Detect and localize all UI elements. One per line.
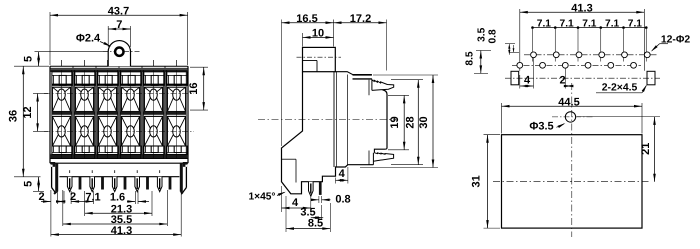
drill pattern: top row holes 12-dia2 [531,52,537,58]
cell 3: inter-row divider band [97,112,117,115]
dim 16.5 [281,20,283,147]
front view: flange tick marks at column boundaries [72,66,74,68]
svg-text:31: 31 [471,175,483,187]
dim 19 socket opening [388,94,409,96]
cell 4: inter-row divider band [120,112,140,115]
svg-text:43.7: 43.7 [108,5,129,17]
cell 3: row2 screw cavity [98,116,116,146]
cell 3: lower clamp window [98,146,118,154]
side view: body outline [282,72,374,194]
front view pin (lancet) 1 [69,170,71,173]
cell 5: row2 screw cavity [144,116,162,146]
cell 1: row1 screw ellipse [58,89,66,100]
dim 3.5 (offset) [505,43,515,45]
side view: upper latch inner line [368,80,370,96]
svg-text:8.5: 8.5 [308,217,323,229]
front view: pin shoulder line [59,176,179,178]
svg-text:2: 2 [38,191,44,203]
svg-text:7.1: 7.1 [560,19,574,30]
front view pins: left hook bar [55,163,58,192]
dim 17.2 [386,20,388,71]
cell 4: row2 screw ellipse [127,126,135,137]
front view: top dark band [51,69,188,72]
front view pin (lancet) 5 [159,170,161,173]
svg-text:2: 2 [559,75,565,87]
cell 6: upper clamp window [167,72,187,86]
cell 4: upper clamp window [121,72,141,86]
svg-text:5: 5 [23,56,35,62]
svg-text:41.3: 41.3 [111,225,132,237]
front view pins: left hook head [51,162,56,167]
svg-text:1.6: 1.6 [110,192,125,204]
cell 3: row1 screw ellipse [104,89,112,100]
dim 4 (edge to first hole) [519,75,521,89]
cell 5: lower clamp window [144,146,164,154]
cell 2: inter-row divider band [74,112,94,115]
svg-text:16.5: 16.5 [296,13,317,25]
dim 0.8 (offset) [509,51,519,53]
cell 4: row2 screw cavity [121,116,139,146]
side view: upper latch with teeth [372,79,394,91]
cell 6: row1 screw cavity [167,87,185,111]
dim 5 ear center to flange top [35,51,109,53]
cell 4: vertical centerline [130,60,132,66]
svg-text:0.8: 0.8 [335,193,350,205]
cell 1: row1 screw cavity [52,87,70,111]
dim 35.5 [63,223,168,225]
svg-text:7.1: 7.1 [605,19,619,30]
drill pattern: left slot 2x4.5 [511,71,519,85]
side view: ear block [303,47,336,71]
drill pattern: right slot 2x4.5 [647,71,655,85]
cell 4: row1 screw ellipse [127,89,135,100]
dim 43.7 overall width [49,12,51,65]
cell 6: inter-row divider band [166,112,186,115]
svg-text:12: 12 [22,106,34,118]
svg-text:7: 7 [116,19,122,31]
side view: body centerline (dash-dot) [258,119,398,121]
cell 5: vertical centerline [153,60,155,66]
bottom dims: extension lines [50,190,52,237]
svg-text:Φ3.5: Φ3.5 [529,120,553,132]
side view: right edge lower corner [374,148,387,153]
dim 2 hook width [41,201,51,203]
dim 36 body height [14,65,49,67]
svg-text:8.5: 8.5 [465,51,476,65]
svg-text:30: 30 [418,116,430,128]
cell 4: row1 screw cavity [121,87,139,111]
svg-text:0.8: 0.8 [488,29,499,43]
side view pin (lancet) [309,182,314,197]
dim 12 row pitch [33,93,48,95]
drill pattern: dim 41.3 [519,9,521,71]
dim 0.8 pin thickness [318,196,320,203]
cutout hole centerline (dash-dot) [552,116,593,118]
front view pin (lancet) 3 [114,170,116,173]
side view: ear centerline (dash-dot) [297,56,342,58]
cell 6: lower clamp window [167,146,187,154]
svg-text:Φ2.4: Φ2.4 [76,33,101,45]
side view pin (flat) [319,182,322,195]
svg-text:7.1: 7.1 [582,19,596,30]
cell 5: inter-row divider band [143,112,163,115]
svg-text:28: 28 [405,116,417,128]
cell 1: vertical centerline [61,60,63,66]
side view: upper latch fillet to right edge [383,90,388,148]
svg-text:4: 4 [524,75,531,87]
side view: lower latch with teeth [373,153,393,165]
cell 5: row1 screw cavity [144,87,162,111]
mounting ear tab [108,41,130,67]
dim 31 [484,134,501,136]
cell 6: row2 screw cavity [167,116,185,146]
dim 16 right side [190,66,208,68]
front view pin (flat) 3 [124,177,127,190]
front view: column divider walls [71,70,73,159]
dim 21.3 [85,212,152,214]
cell 1: row2 screw ellipse [58,126,66,137]
side view: lower latch inner line [368,151,370,165]
slot centerline (dash-dot) [505,77,660,79]
cutout: dim 44.5 [501,103,503,134]
svg-text:19: 19 [389,116,401,128]
svg-text:2-2×4.5: 2-2×4.5 [602,83,638,94]
cell 2: row2 screw ellipse [81,126,89,137]
cell 6: row2 screw ellipse [173,126,181,137]
dim 4 left (foot to pin) [281,186,283,212]
cell 1: upper clamp window [52,72,72,86]
svg-text:16: 16 [188,82,200,94]
cell 2: row1 screw ellipse [81,89,89,100]
dim 8.5 [285,196,287,232]
cell 3: vertical centerline [107,60,109,66]
cell 2: upper clamp window [75,72,95,86]
front view pin (flat) 4 [146,177,149,190]
cell 4: lower clamp window [121,146,141,154]
drill pattern: bottom row centerline (dash-dot) [512,64,641,66]
svg-text:7.1: 7.1 [628,19,642,30]
drill pattern: bottom row holes [517,62,523,68]
front view pin (lancet) 4 [136,170,138,173]
svg-text:5: 5 [23,181,35,187]
side view: inner vertical walls [333,72,335,167]
cell 6: vertical centerline [176,60,178,66]
dim 2 (hole to centerline) [564,69,566,89]
cell 2: row1 screw cavity [75,87,93,111]
front view pin (flat) 1 [79,177,82,190]
svg-text:44.5: 44.5 [558,96,579,108]
front view pins: right hook head [183,162,188,167]
front view pins: left hook prong [51,167,53,188]
cell 5: row2 screw ellipse [150,126,158,137]
dim 21 [577,116,660,118]
svg-text:21: 21 [640,143,652,155]
svg-text:4: 4 [292,197,299,209]
svg-text:41.3: 41.3 [571,2,592,14]
svg-text:1×45°: 1×45° [248,192,275,203]
svg-text:7.1: 7.1 [85,192,100,204]
dim 1.6 pin width [127,201,135,203]
front view pin (flat) 2 [101,177,104,190]
dim 2 hook to pin [57,201,64,203]
svg-text:17.2: 17.2 [350,13,371,25]
cell 3: upper clamp window [98,72,118,86]
dim 4 right (step width) [335,178,337,184]
cell 5: upper clamp window [144,72,164,86]
dim 8.5 (row to slot) [476,50,491,52]
front view pin (lancet) 2 [91,170,93,173]
dim 3.5 [321,205,323,220]
front view: base plate bottom edge [50,162,188,164]
front view: bottom dark band [51,154,188,158]
svg-text:3.5: 3.5 [477,27,488,41]
front view pin (flat) 5 [169,177,172,190]
ear centerline (dash-dot) [103,51,141,53]
front view: terminal block body outline [50,65,188,67]
cutout horizontal centerline (dash-dot) [493,181,651,183]
side view: foot inner lines [282,158,297,160]
dim 7 ear width [107,26,109,47]
dim 7.1 pin pitch [71,201,93,203]
front view: row centerlines (dash-dot) [44,93,194,95]
dim 28 latch span [391,79,423,81]
dim 41.3 overall pin span [51,234,181,236]
dim 30 overall height [373,74,438,76]
svg-text:10: 10 [312,28,324,40]
cutout rectangle [502,135,643,228]
cell 1: lower clamp window [52,146,72,154]
cell 3: row1 screw cavity [98,87,116,111]
cell 2: lower clamp window [75,146,95,154]
drill pattern: top row centerline (dash-dot) [524,54,657,56]
dim 5 pin length (bottom left) [38,177,40,192]
panel centerline vertical (dash-dot) [571,83,573,237]
cell 3: row2 screw ellipse [104,126,112,137]
mounting hole ring (2.4 dia) [115,48,123,56]
front view pins: right hook prong [185,167,187,188]
front view pins: right hook bar [180,163,183,192]
cutout hole dia 3.5 [565,112,575,122]
svg-text:36: 36 [8,110,20,122]
svg-text:7.1: 7.1 [537,19,551,30]
cell 1: inter-row divider band [51,112,71,115]
cell 2: vertical centerline [84,60,86,66]
svg-text:4: 4 [339,168,346,180]
cell 6: row1 screw ellipse [173,89,181,100]
cell 5: row1 screw ellipse [150,89,158,100]
cell 1: row2 screw cavity [52,116,70,146]
drill pattern: 7.1 pitch dimension chain [533,27,647,29]
side view: flange top edge [335,72,372,75]
dim 10 ear depth [302,33,304,47]
cell 2: row2 screw cavity [75,116,93,146]
